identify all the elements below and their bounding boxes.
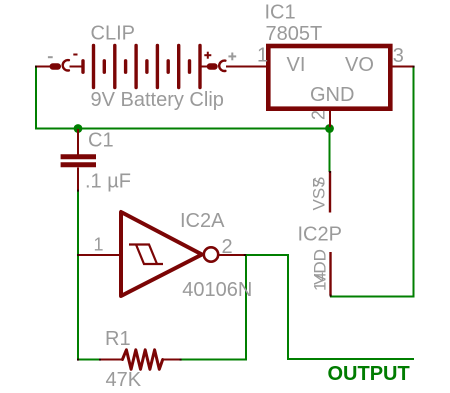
corner mark pin1 crossing — [77, 254, 79, 256]
svg-text:3: 3 — [393, 45, 404, 67]
battery B1 cells — [83, 46, 200, 88]
corner mark C1 lead to net — [77, 190, 79, 192]
corner mark VO corner — [413, 66, 415, 68]
svg-text:IC1: IC1 — [265, 2, 296, 24]
wire ground rail to VSS pin — [329, 129, 331, 173]
regulator IC1 box — [268, 46, 390, 109]
svg-text:7805T: 7805T — [266, 23, 323, 45]
svg-text:7: 7 — [310, 178, 329, 187]
battery minus mark red — [73, 54, 77, 56]
wire battery minus to left rail — [36, 67, 49, 129]
inverter IC2A triangle — [121, 212, 202, 296]
battery minus mark gray — [48, 56, 53, 58]
pin 2 stub of IC1 — [329, 110, 331, 127]
corner mark R1 right lead — [180, 359, 182, 361]
svg-text:CLIP: CLIP — [91, 23, 135, 45]
power gate IC2P VDD pin — [329, 252, 331, 296]
junction at GND of IC1 — [325, 124, 334, 133]
svg-text:OUTPUT: OUTPUT — [328, 363, 410, 385]
wire OUTPUT run — [287, 358, 414, 360]
junction at C1 top — [74, 124, 83, 133]
svg-text:47K: 47K — [106, 369, 142, 391]
resistor R1 lead left — [99, 359, 122, 361]
corner mark battery minus — [35, 66, 37, 68]
svg-text:VO: VO — [345, 54, 374, 76]
pin 3 stub of IC1 — [392, 66, 414, 68]
inverter IC2A bubble — [204, 247, 218, 261]
corner mark pin2 stub to net — [244, 254, 246, 256]
wire ground rail — [35, 128, 330, 130]
svg-text:GND: GND — [310, 84, 354, 106]
power gate IC2P VSS pin — [329, 171, 331, 213]
wire C1 bottom down to R1 — [78, 190, 100, 360]
inverter IC2A pin 2 stub — [218, 254, 245, 256]
resistor R1 lead right — [163, 359, 181, 361]
svg-text:2: 2 — [309, 110, 329, 120]
svg-text:R1: R1 — [105, 328, 131, 350]
capacitor C1 — [61, 129, 96, 191]
svg-text:9V Battery Clip: 9V Battery Clip — [91, 89, 224, 111]
wire pin of battery minus — [36, 66, 50, 68]
inverter IC2A pin 1 stub — [78, 254, 121, 256]
svg-text:14: 14 — [311, 272, 330, 291]
svg-text:1: 1 — [94, 235, 104, 255]
corner mark VSS pin top — [329, 171, 331, 173]
corner mark left bottom — [77, 359, 79, 361]
battery plus mark gray — [228, 53, 236, 61]
svg-text:40106N: 40106N — [182, 279, 252, 301]
svg-text:1: 1 — [257, 45, 268, 67]
svg-text:VI: VI — [287, 54, 306, 76]
wire R1 right to inverter output net — [180, 359, 247, 361]
corner mark R1 left lead — [99, 359, 101, 361]
battery clip connector minus — [50, 60, 83, 70]
svg-text:IC2A: IC2A — [180, 210, 225, 232]
corner mark VDD pin bottom — [330, 295, 332, 297]
wire riser from R1 net up to pin 2 net — [245, 254, 247, 360]
svg-text:IC2P: IC2P — [298, 224, 342, 246]
svg-text:2: 2 — [222, 236, 233, 258]
wire VO net right side — [330, 68, 414, 297]
svg-text:C1: C1 — [88, 130, 114, 152]
resistor R1 zigzag — [122, 350, 162, 370]
svg-text:.1 µF: .1 µF — [85, 171, 131, 193]
wire pin 2 net horizontal — [244, 254, 288, 256]
battery plus mark red — [204, 52, 211, 59]
battery clip connector plus — [200, 61, 267, 71]
inverter IC2A schmitt mark — [129, 245, 163, 265]
wire drop from pin 2 net to output run — [287, 254, 289, 360]
